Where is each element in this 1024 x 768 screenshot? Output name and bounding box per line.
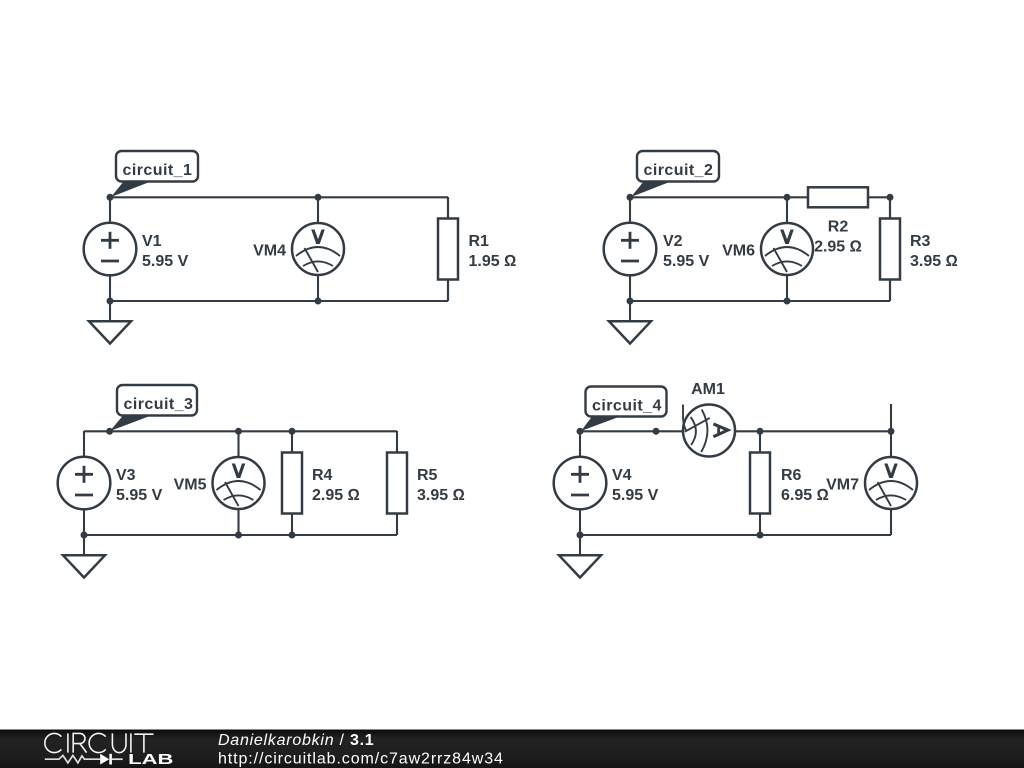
svg-text:http://circuitlab.com/c7aw2rrz: http://circuitlab.com/c7aw2rrz84w34 [218, 751, 504, 768]
svg-text:R4: R4 [312, 467, 333, 484]
svg-text:5.95 V: 5.95 V [612, 487, 659, 504]
svg-text:circuit_4: circuit_4 [592, 398, 662, 415]
svg-text:VM4: VM4 [253, 243, 286, 260]
svg-text:VM5: VM5 [174, 477, 207, 494]
svg-text:AM1: AM1 [691, 381, 725, 398]
svg-text:Danielkarobkin / 3.1: Danielkarobkin / 3.1 [218, 732, 374, 749]
svg-text:2.95 Ω: 2.95 Ω [814, 239, 862, 256]
svg-text:V1: V1 [142, 233, 162, 250]
svg-text:V4: V4 [612, 467, 632, 484]
svg-text:6.95 Ω: 6.95 Ω [781, 487, 829, 504]
svg-text:circuit_3: circuit_3 [124, 396, 194, 413]
svg-text:circuit_1: circuit_1 [123, 162, 193, 179]
svg-text:3.95 Ω: 3.95 Ω [417, 487, 465, 504]
svg-text:LAB: LAB [128, 751, 173, 768]
svg-text:R5: R5 [417, 467, 438, 484]
svg-text:3.95 Ω: 3.95 Ω [910, 253, 958, 270]
svg-text:R2: R2 [828, 219, 849, 236]
svg-text:R6: R6 [781, 467, 802, 484]
svg-text:VM6: VM6 [722, 243, 755, 260]
svg-text:V3: V3 [116, 467, 136, 484]
svg-text:2.95 Ω: 2.95 Ω [312, 487, 360, 504]
svg-text:V2: V2 [663, 233, 683, 250]
svg-text:5.95 V: 5.95 V [142, 253, 189, 270]
svg-text:1.95 Ω: 1.95 Ω [469, 253, 517, 270]
svg-text:VM7: VM7 [826, 477, 859, 494]
svg-text:5.95 V: 5.95 V [663, 253, 710, 270]
svg-text:circuit_2: circuit_2 [644, 162, 714, 179]
svg-text:R3: R3 [910, 233, 931, 250]
svg-text:5.95 V: 5.95 V [116, 487, 163, 504]
svg-text:R1: R1 [469, 233, 490, 250]
